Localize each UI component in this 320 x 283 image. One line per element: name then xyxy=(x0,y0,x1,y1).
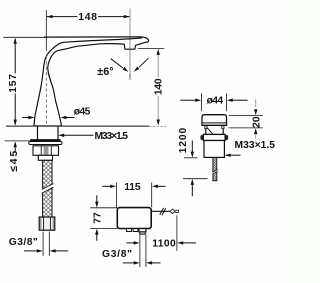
cable plug connector xyxy=(170,209,175,213)
box cable xyxy=(151,210,169,212)
svg-text:ø45: ø45 xyxy=(74,106,91,117)
mounting flange xyxy=(29,142,62,145)
dim o44 arrows xyxy=(180,99,195,101)
svg-text:115: 115 xyxy=(124,182,141,193)
svg-text:M33×1.5: M33×1.5 xyxy=(235,140,276,151)
box G3/8 connector xyxy=(139,229,146,232)
dim 1200 line and arrows xyxy=(191,141,193,153)
dim G3/8 extension lines (hose end) xyxy=(42,232,44,256)
threaded rod (gray) xyxy=(44,146,49,155)
faucet shank below deck xyxy=(37,126,39,139)
dim 115 arrows xyxy=(102,185,110,187)
dim 148 extension line left (faucet centerline top) xyxy=(45,10,47,51)
dim 140 top extension line xyxy=(138,47,164,49)
dim <=45 arrow and line xyxy=(14,141,17,147)
dim 140 dimension line (gray) and arrows xyxy=(157,55,159,78)
countertop / deck line xyxy=(6,125,34,127)
svg-text:G3/8": G3/8" xyxy=(102,249,132,260)
hose end nut xyxy=(39,217,55,230)
dim 148 extension line right / spout tip centerline xyxy=(129,9,131,77)
faucet base bottom edge xyxy=(34,125,62,127)
dim G3/8 arrows xyxy=(24,250,37,252)
dim 157 dimension line and arrows xyxy=(14,39,16,74)
leader arrow M33x1.5 (valve) xyxy=(225,154,231,157)
dim G3/8 arrows (box) xyxy=(123,262,134,264)
dim G3/8 extension lines (box) xyxy=(139,234,141,267)
dim 20 extension lines xyxy=(229,114,263,116)
dim 20 line and arrows xyxy=(255,100,257,108)
faucet spout top edge xyxy=(44,36,141,38)
dim <=45 extension line xyxy=(5,140,30,142)
thread label M33x1.5 leader arrow xyxy=(58,134,64,137)
svg-text:20: 20 xyxy=(252,116,263,128)
mounting washer (dark) xyxy=(30,139,61,141)
svg-text:1100: 1100 xyxy=(152,238,176,249)
valve collar with o-ring ends xyxy=(200,135,204,140)
hose fitting below nut xyxy=(38,155,52,160)
dim 77 arrows xyxy=(96,195,98,202)
svg-text:G3/8": G3/8" xyxy=(9,237,38,248)
faucet inner edge / underside / aerator / right silhouette xyxy=(48,37,149,126)
svg-text:77: 77 xyxy=(93,212,104,224)
dim 148 dimension line and arrows xyxy=(47,16,78,18)
faucet outer silhouette and shoulder crease xyxy=(34,38,142,126)
box feet xyxy=(127,229,132,232)
dim o44 extension lines xyxy=(200,94,202,112)
faucet dashed centerline xyxy=(45,56,47,124)
svg-text:M33×1.5: M33×1.5 xyxy=(95,131,129,142)
dim 77 extension lines xyxy=(90,207,117,209)
valve neck xyxy=(205,125,207,134)
svg-text:1200: 1200 xyxy=(178,128,189,154)
svg-text:148: 148 xyxy=(78,12,97,23)
braided supply hose xyxy=(43,160,52,217)
hose inside neck (diagonal) xyxy=(207,127,214,135)
svg-text:ø44: ø44 xyxy=(207,96,224,107)
control box xyxy=(117,208,151,229)
svg-text:140: 140 xyxy=(154,78,165,95)
dim 1200 extension lines xyxy=(184,157,198,159)
dim +-6 deg arrows xyxy=(111,59,123,68)
hose break symbol xyxy=(42,184,54,194)
svg-text:157: 157 xyxy=(8,74,19,93)
svg-text:±6°: ±6° xyxy=(97,66,113,78)
dim o45 arrows xyxy=(22,117,29,119)
mounting nut xyxy=(33,146,59,156)
svg-text:≤45: ≤45 xyxy=(9,151,20,172)
valve body xyxy=(204,141,224,158)
dim 157 top extension line xyxy=(3,36,46,38)
valve cap xyxy=(202,115,227,126)
valve cable (braided) xyxy=(213,157,217,180)
dim 1100 extension line (cable end) xyxy=(176,215,178,251)
dim 1100 arrows xyxy=(127,242,134,244)
dim 115 extension lines xyxy=(115,183,117,208)
